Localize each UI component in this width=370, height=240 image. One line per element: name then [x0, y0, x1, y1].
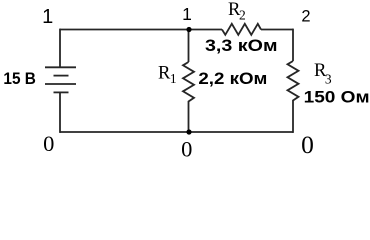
- wire left branch top lead: [59, 29, 61, 68]
- battery V1 plate long lower: [45, 83, 76, 85]
- battery V1 plate long top: [45, 66, 76, 68]
- svg-text:0: 0: [301, 130, 314, 159]
- svg-text:150 Ом: 150 Ом: [304, 87, 370, 106]
- value label R3 150 Ohm: [304, 87, 370, 106]
- svg-text:15 В: 15 В: [3, 69, 36, 88]
- wire R2 to node 2 corner: [261, 29, 293, 31]
- wire middle branch lower: [188, 105, 190, 133]
- label R2: [228, 0, 246, 22]
- svg-text:3,3 кОм: 3,3 кОм: [205, 36, 278, 55]
- wire node1 to R2: [189, 29, 222, 31]
- node label 0 left: [43, 131, 54, 156]
- svg-text:2,2 кОм: 2,2 кОм: [198, 69, 267, 88]
- node label 0 middle: [181, 137, 192, 162]
- value label R2 3,3 kOhm: [205, 36, 278, 55]
- wire right branch upper: [292, 29, 294, 61]
- svg-text:2: 2: [239, 7, 246, 22]
- node junction dot bottom (node 0): [186, 129, 191, 134]
- wire top-left horizontal node1: [60, 29, 189, 31]
- svg-text:0: 0: [181, 137, 192, 161]
- label R3: [314, 61, 332, 87]
- node junction dot top (node 1): [186, 27, 191, 32]
- node label 1 middle: [182, 4, 192, 24]
- label R1: [158, 64, 177, 86]
- svg-text:0: 0: [43, 131, 54, 156]
- resistor R3 zigzag: [288, 61, 299, 104]
- wire bottom horizontal: [60, 131, 293, 133]
- svg-text:1: 1: [42, 6, 53, 28]
- value label 15 V: [3, 69, 36, 88]
- node label 0 right: [301, 130, 314, 159]
- svg-text:1: 1: [170, 71, 177, 86]
- node label 2: [301, 8, 310, 26]
- wire middle branch upper: [188, 30, 190, 63]
- wire left branch bottom lead: [59, 92, 61, 132]
- value label R1 2,2 kOhm: [198, 69, 267, 88]
- svg-text:2: 2: [301, 8, 310, 26]
- battery V1 plate short bottom: [54, 91, 69, 93]
- battery V1 plate short upper: [54, 75, 69, 77]
- svg-text:3: 3: [325, 71, 332, 86]
- resistor R1 zigzag: [183, 62, 194, 105]
- wire right branch lower: [292, 104, 294, 133]
- svg-text:1: 1: [182, 4, 192, 24]
- resistor R2 zigzag: [222, 24, 261, 35]
- node label 1 left: [42, 6, 53, 28]
